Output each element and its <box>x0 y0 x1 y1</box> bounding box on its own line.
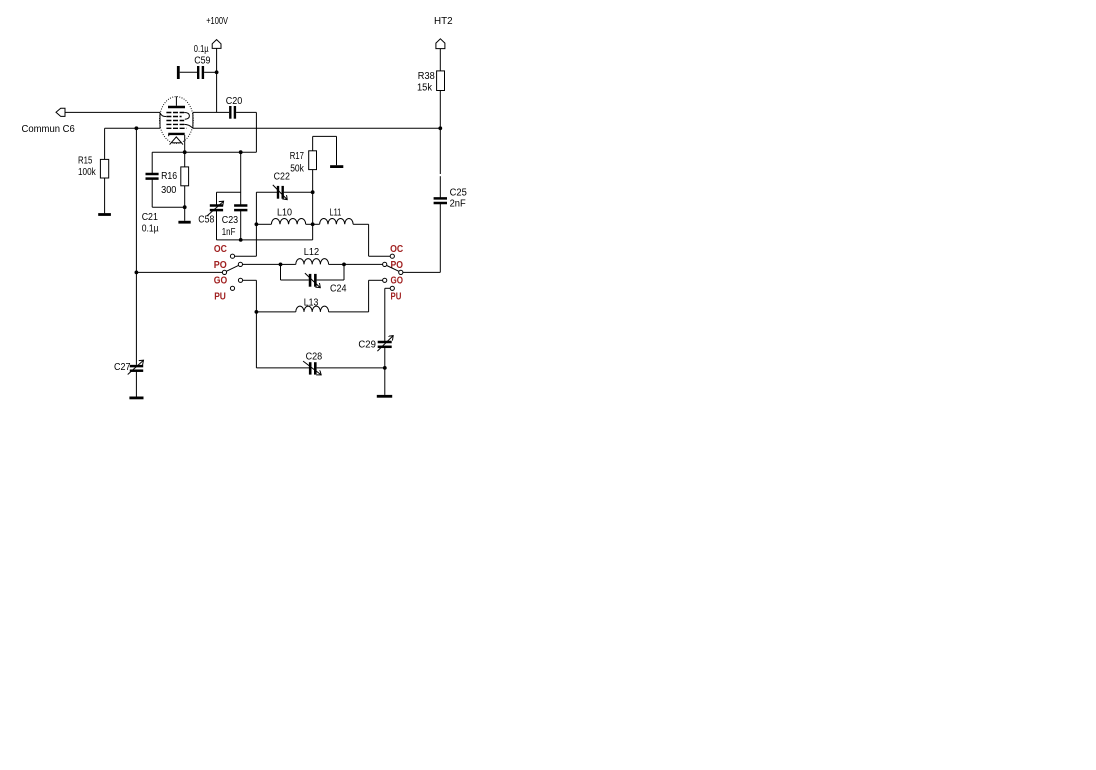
junction <box>311 190 315 194</box>
ground <box>330 165 343 168</box>
wire <box>312 136 314 150</box>
svg-text:PU: PU <box>391 292 402 303</box>
svg-text:R17: R17 <box>290 151 305 162</box>
svg-text:300: 300 <box>161 185 177 196</box>
inductor L11 <box>320 219 354 225</box>
svg-text:GO: GO <box>391 276 404 287</box>
wire <box>240 210 242 240</box>
wire <box>151 179 153 208</box>
wire <box>65 111 160 113</box>
switch S1 contact PO <box>238 262 242 266</box>
wire <box>439 203 441 272</box>
wire <box>280 264 282 280</box>
wire <box>384 288 386 342</box>
wire <box>216 210 218 240</box>
inductor L10 <box>271 219 305 225</box>
junction <box>239 150 243 154</box>
inductor L13 <box>296 306 329 312</box>
ground <box>377 395 392 398</box>
switch S1 contact GO <box>238 278 242 282</box>
junction <box>239 238 243 242</box>
wire <box>152 206 185 208</box>
power terminal +100V <box>212 40 221 49</box>
wire <box>104 178 106 213</box>
wire <box>184 152 186 167</box>
wire <box>217 191 241 193</box>
resistor R16 <box>181 167 189 186</box>
svg-text:R38: R38 <box>418 71 435 82</box>
capacitor C58 <box>207 201 223 216</box>
wire <box>256 311 295 313</box>
wire <box>216 48 218 112</box>
junction <box>255 222 259 226</box>
ground <box>129 396 143 399</box>
capacitor C23 <box>234 206 247 211</box>
svg-text:C24: C24 <box>330 284 347 295</box>
junction <box>215 70 219 74</box>
wire <box>104 128 106 159</box>
vacuum tube V1 <box>160 96 194 144</box>
wire <box>439 49 441 71</box>
wire <box>329 311 369 313</box>
switch S2 contact PO <box>383 262 387 266</box>
svg-text:PU: PU <box>214 292 226 303</box>
switch S2 contact OC <box>390 254 394 258</box>
wire <box>343 264 345 280</box>
junction <box>311 222 315 226</box>
svg-text:C58: C58 <box>198 214 214 225</box>
wire <box>312 170 314 240</box>
wire <box>184 135 186 152</box>
svg-text:HT2: HT2 <box>434 16 453 27</box>
wire <box>240 152 242 205</box>
switch S1 contact OC <box>230 254 234 258</box>
wire <box>136 271 222 273</box>
svg-text:C29: C29 <box>358 340 376 351</box>
wire <box>235 255 257 257</box>
wire <box>243 263 281 265</box>
junction <box>342 263 346 267</box>
wire <box>135 371 137 397</box>
switch S2 common <box>399 270 403 274</box>
switch S2 contact GO <box>383 278 387 282</box>
capacitor C59 <box>177 66 217 79</box>
junction <box>438 126 442 130</box>
wire <box>385 287 390 289</box>
junction <box>183 150 187 154</box>
svg-text:C20: C20 <box>226 96 243 107</box>
wire <box>368 224 370 256</box>
switch S2 blade <box>387 266 399 272</box>
wire <box>151 152 153 174</box>
resistor R17 <box>309 151 317 170</box>
capacitor C21 <box>146 174 159 179</box>
svg-text:+100V: +100V <box>206 16 228 27</box>
svg-text:GO: GO <box>214 276 228 287</box>
svg-text:2nF: 2nF <box>450 198 466 209</box>
wire <box>439 128 441 174</box>
wire <box>256 223 271 225</box>
svg-text:1nF: 1nF <box>222 227 236 238</box>
wire <box>317 367 385 369</box>
svg-text:C27: C27 <box>114 362 131 373</box>
svg-text:L10: L10 <box>277 207 292 218</box>
power terminal HT2 <box>436 39 445 49</box>
svg-text:L12: L12 <box>304 247 320 258</box>
capacitor C22 <box>273 185 287 200</box>
wire <box>105 127 160 129</box>
wire <box>317 279 344 281</box>
wire <box>184 186 186 221</box>
svg-text:PO: PO <box>214 260 227 271</box>
svg-text:C28: C28 <box>306 352 323 363</box>
inductor L12 <box>296 259 329 265</box>
capacitor C20 <box>230 106 235 119</box>
svg-text:OC: OC <box>390 244 403 255</box>
switch S1 blade <box>226 265 238 271</box>
svg-text:PO: PO <box>391 260 404 271</box>
svg-text:100k: 100k <box>78 167 97 178</box>
wire <box>369 279 383 281</box>
switch S1 common <box>222 270 226 274</box>
junction <box>183 205 187 209</box>
wire <box>243 279 257 281</box>
junction <box>383 366 387 370</box>
wire <box>256 367 309 369</box>
switch S1 contact PU <box>230 286 234 290</box>
svg-text:C25: C25 <box>450 187 468 198</box>
capacitor C27 <box>128 360 144 374</box>
wire <box>193 127 440 129</box>
wire <box>216 192 218 205</box>
wire <box>193 111 229 113</box>
wire <box>344 263 383 265</box>
svg-text:R16: R16 <box>161 171 177 182</box>
svg-text:C59: C59 <box>194 56 211 67</box>
wire <box>255 112 257 152</box>
capacitor C24 <box>305 273 320 288</box>
switch S2 contact PU <box>390 286 394 290</box>
svg-text:C21: C21 <box>142 212 159 223</box>
svg-text:L11: L11 <box>330 207 342 218</box>
svg-text:15k: 15k <box>417 83 433 94</box>
wire <box>336 136 338 165</box>
wire <box>329 263 344 265</box>
svg-text:0.1µ: 0.1µ <box>142 224 159 235</box>
svg-text:0.1µ: 0.1µ <box>194 44 209 55</box>
capacitor C28 <box>303 361 321 375</box>
capacitor C29 <box>377 336 393 352</box>
wire <box>313 135 337 137</box>
ground <box>98 213 111 216</box>
wire <box>281 279 309 281</box>
junction <box>255 310 259 314</box>
wire <box>306 223 313 225</box>
input terminal <box>56 108 65 116</box>
wire <box>439 91 441 129</box>
wire <box>368 280 370 312</box>
wire <box>217 239 241 241</box>
ground <box>178 221 190 224</box>
wire <box>255 192 257 256</box>
svg-text:OC: OC <box>214 244 227 255</box>
wire <box>313 223 320 225</box>
capacitor C25 <box>434 198 447 203</box>
wire <box>152 151 256 153</box>
svg-text:C22: C22 <box>274 171 291 182</box>
wire <box>353 223 369 225</box>
junction <box>135 271 139 275</box>
junction <box>135 126 139 130</box>
svg-text:C23: C23 <box>222 215 239 226</box>
wire <box>384 347 386 395</box>
junction <box>279 263 283 267</box>
svg-text:Commun C6: Commun C6 <box>22 124 76 135</box>
wire <box>135 128 137 365</box>
wire <box>255 280 257 368</box>
wire <box>284 191 313 193</box>
wire <box>241 239 313 241</box>
wire <box>369 255 391 257</box>
svg-text:R15: R15 <box>78 155 93 166</box>
wire <box>256 191 277 193</box>
svg-text:50k: 50k <box>290 164 305 175</box>
wire <box>281 263 296 265</box>
resistor R15 <box>100 159 108 178</box>
wire <box>439 176 441 198</box>
wire <box>403 271 440 273</box>
resistor R38 <box>437 71 445 91</box>
wire <box>236 111 256 113</box>
